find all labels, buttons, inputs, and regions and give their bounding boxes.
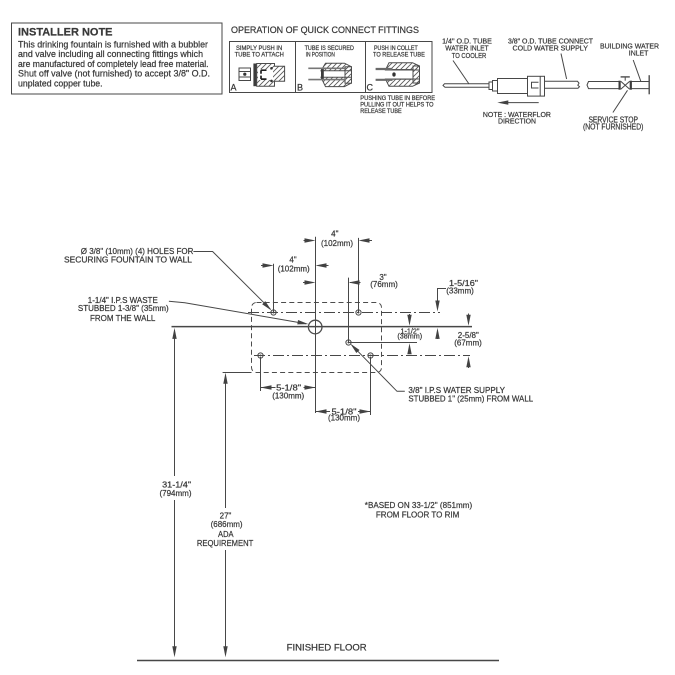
mounting hole top-left <box>271 310 276 315</box>
svg-text:TO COOLER: TO COOLER <box>452 51 487 60</box>
svg-text:4": 4" <box>331 230 338 239</box>
building inlet wall bar <box>648 75 650 94</box>
dim 27 ADA vertical <box>197 373 253 658</box>
svg-text:RELEASE TUBE: RELEASE TUBE <box>360 108 401 115</box>
dim 3" <box>303 273 398 289</box>
fitting body <box>489 76 545 96</box>
svg-text:TUBE TO ATTACH: TUBE TO ATTACH <box>235 52 284 59</box>
svg-text:IN POSITION: IN POSITION <box>306 52 335 59</box>
label service stop <box>583 116 644 132</box>
svg-text:REQUIREMENT: REQUIREMENT <box>197 539 253 548</box>
svg-text:INLET: INLET <box>629 49 649 58</box>
leader supply <box>349 342 405 391</box>
svg-text:Shut off valve (not furnished): Shut off valve (not furnished) to accept… <box>18 69 210 79</box>
svg-text:*BASED ON 33-1/2" (851mm): *BASED ON 33-1/2" (851mm) <box>365 500 473 510</box>
svg-text:OPERATION OF QUICK CONNECT FIT: OPERATION OF QUICK CONNECT FITTINGS <box>231 24 419 35</box>
svg-text:(76mm): (76mm) <box>370 280 398 289</box>
box C label <box>367 45 425 93</box>
svg-text:STUBBED 1" (25mm) FROM WALL: STUBBED 1" (25mm) FROM WALL <box>408 394 533 403</box>
svg-text:(794mm): (794mm) <box>159 489 191 498</box>
svg-text:FINISHED FLOOR: FINISHED FLOOR <box>287 643 368 653</box>
box B label <box>297 45 354 93</box>
dim 31-1/4 vertical <box>159 328 191 657</box>
svg-text:ADA: ADA <box>218 530 234 539</box>
svg-text:A: A <box>231 83 237 93</box>
dim upper 4" <box>304 230 373 248</box>
note based on <box>365 500 473 520</box>
svg-text:FROM FLOOR TO RIM: FROM FLOOR TO RIM <box>376 510 459 520</box>
label 3/8 OD tube connect <box>508 37 594 53</box>
service stop valve <box>619 77 632 90</box>
ext line bottom-left hole <box>260 357 262 391</box>
quick connect assembly: 1/4 tube <box>443 84 489 88</box>
leader waste <box>169 301 309 326</box>
label waste <box>78 296 169 323</box>
waterflow arrow <box>497 100 538 104</box>
ext line supply <box>348 278 350 343</box>
svg-text:FROM THE WALL: FROM THE WALL <box>90 314 156 323</box>
label 1/4 OD tube water inlet <box>442 37 492 60</box>
svg-text:STUBBED 1-3/8" (35mm): STUBBED 1-3/8" (35mm) <box>78 304 169 313</box>
svg-text:INSTALLER NOTE: INSTALLER NOTE <box>18 27 113 39</box>
ada solid stub <box>223 372 252 374</box>
svg-text:B: B <box>297 83 303 93</box>
svg-text:TO RELEASE TUBE: TO RELEASE TUBE <box>373 52 425 59</box>
dim 2-5/8" <box>454 314 482 369</box>
supply line <box>349 342 418 344</box>
box A label <box>231 45 284 93</box>
mounting hole top-right <box>356 310 361 315</box>
bottom dash-dot line <box>254 355 470 357</box>
leader to 3/8 tube <box>561 54 567 80</box>
svg-text:4": 4" <box>289 256 296 265</box>
dim 1-1/2" <box>397 314 422 354</box>
svg-text:(130mm): (130mm) <box>272 392 304 401</box>
top centerline dash-dot <box>248 312 440 314</box>
svg-text:DIRECTION: DIRECTION <box>498 116 536 125</box>
ext line bottom-right hole <box>370 357 372 415</box>
svg-text:(33mm): (33mm) <box>446 287 474 296</box>
dim 5-1/8" left <box>261 384 316 401</box>
vertical centerline V1 <box>315 237 317 413</box>
svg-text:(686mm): (686mm) <box>211 520 243 529</box>
fountain outline dashed rect <box>252 303 382 373</box>
mounting hole bottom-right <box>368 353 373 358</box>
svg-text:SECURING FOUNTAIN TO WALL: SECURING FOUNTAIN TO WALL <box>64 255 193 264</box>
floor line <box>137 660 499 662</box>
svg-text:COLD WATER SUPPLY: COLD WATER SUPPLY <box>513 44 589 53</box>
svg-text:(67mm): (67mm) <box>454 339 482 348</box>
svg-text:This drinking fountain is furn: This drinking fountain is furnished with… <box>18 40 208 50</box>
label building water inlet <box>600 42 659 58</box>
svg-text:unplated copper tube.: unplated copper tube. <box>18 78 103 88</box>
svg-text:27": 27" <box>220 511 232 520</box>
box A fitting drawing <box>239 64 285 87</box>
svg-text:(NOT FURNISHED): (NOT FURNISHED) <box>583 123 644 132</box>
leader service stop <box>613 90 628 112</box>
label holes <box>64 247 194 264</box>
label supply <box>408 386 533 403</box>
svg-text:C: C <box>367 83 374 93</box>
quick connect panel boxes <box>230 42 433 93</box>
svg-text:(102mm): (102mm) <box>278 265 310 274</box>
svg-text:(102mm): (102mm) <box>321 239 353 248</box>
svg-text:are manufactured of completely: are manufactured of completely lead free… <box>18 59 209 69</box>
installer note box <box>12 23 223 94</box>
ext line top-left hole <box>273 264 275 313</box>
svg-text:(38mm): (38mm) <box>397 331 422 340</box>
leader holes <box>193 252 273 313</box>
leader to building inlet <box>633 60 641 82</box>
dim lower-left 4" <box>261 256 329 274</box>
supply point <box>346 340 351 345</box>
svg-text:(130mm): (130mm) <box>328 414 360 423</box>
svg-text:and valve including all connec: and valve including all connecting fitti… <box>18 49 203 59</box>
box C fitting drawing <box>376 63 420 87</box>
dim 1-5/16" leader <box>435 279 478 339</box>
3/8 tube stub with break <box>545 81 580 88</box>
leader to 1/4 tube <box>453 61 469 85</box>
mounting hole bottom-left <box>258 353 263 358</box>
box B fitting drawing <box>308 63 351 86</box>
supply tube to wall <box>587 82 649 89</box>
ext line top-right hole <box>358 238 360 313</box>
note waterflow direction <box>483 110 552 125</box>
rim line <box>172 326 473 328</box>
note below box C <box>360 95 435 115</box>
waste circle <box>308 320 322 334</box>
dim 5-1/8" right <box>316 407 371 422</box>
